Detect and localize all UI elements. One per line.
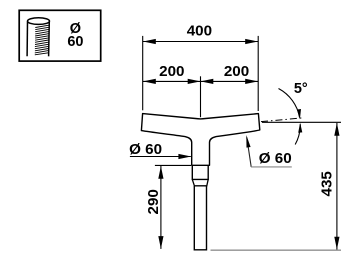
detail cylinder thread hatching (35, 25, 49, 55)
svg-text:60: 60 (67, 34, 83, 50)
angle 5 deg axis dash-dot (261, 118, 304, 122)
leader O60 left (129, 141, 191, 159)
svg-text:Ø 60: Ø 60 (129, 141, 162, 158)
leader O60 right (246, 135, 291, 167)
svg-text:290: 290 (145, 189, 162, 214)
svg-text:435: 435 (318, 171, 335, 197)
tube middle section (192, 165, 208, 179)
svg-text:5°: 5° (294, 81, 308, 97)
bracket arm outline (141, 114, 259, 166)
dim 435 (211, 122, 342, 250)
tube taper (192, 179, 208, 185)
detail cylinder body (27, 18, 49, 57)
dim 400 (143, 22, 258, 44)
detail label O60 (67, 21, 83, 50)
dim 200 right (201, 63, 259, 84)
angle 5 deg arc upper (279, 89, 300, 118)
dim 200 left (143, 63, 201, 84)
tube spigot (194, 186, 206, 250)
detail box frame (19, 10, 101, 61)
svg-text:Ø 60: Ø 60 (259, 150, 292, 167)
svg-text:400: 400 (187, 22, 212, 39)
svg-text:200: 200 (159, 63, 184, 80)
dim 400 extension line left (142, 36, 144, 110)
centerline vertical (200, 76, 202, 117)
dim 290 (145, 165, 191, 249)
angle 5 deg arc lower (295, 124, 300, 144)
svg-text:200: 200 (224, 63, 249, 80)
dim 400 extension line right (257, 36, 259, 111)
